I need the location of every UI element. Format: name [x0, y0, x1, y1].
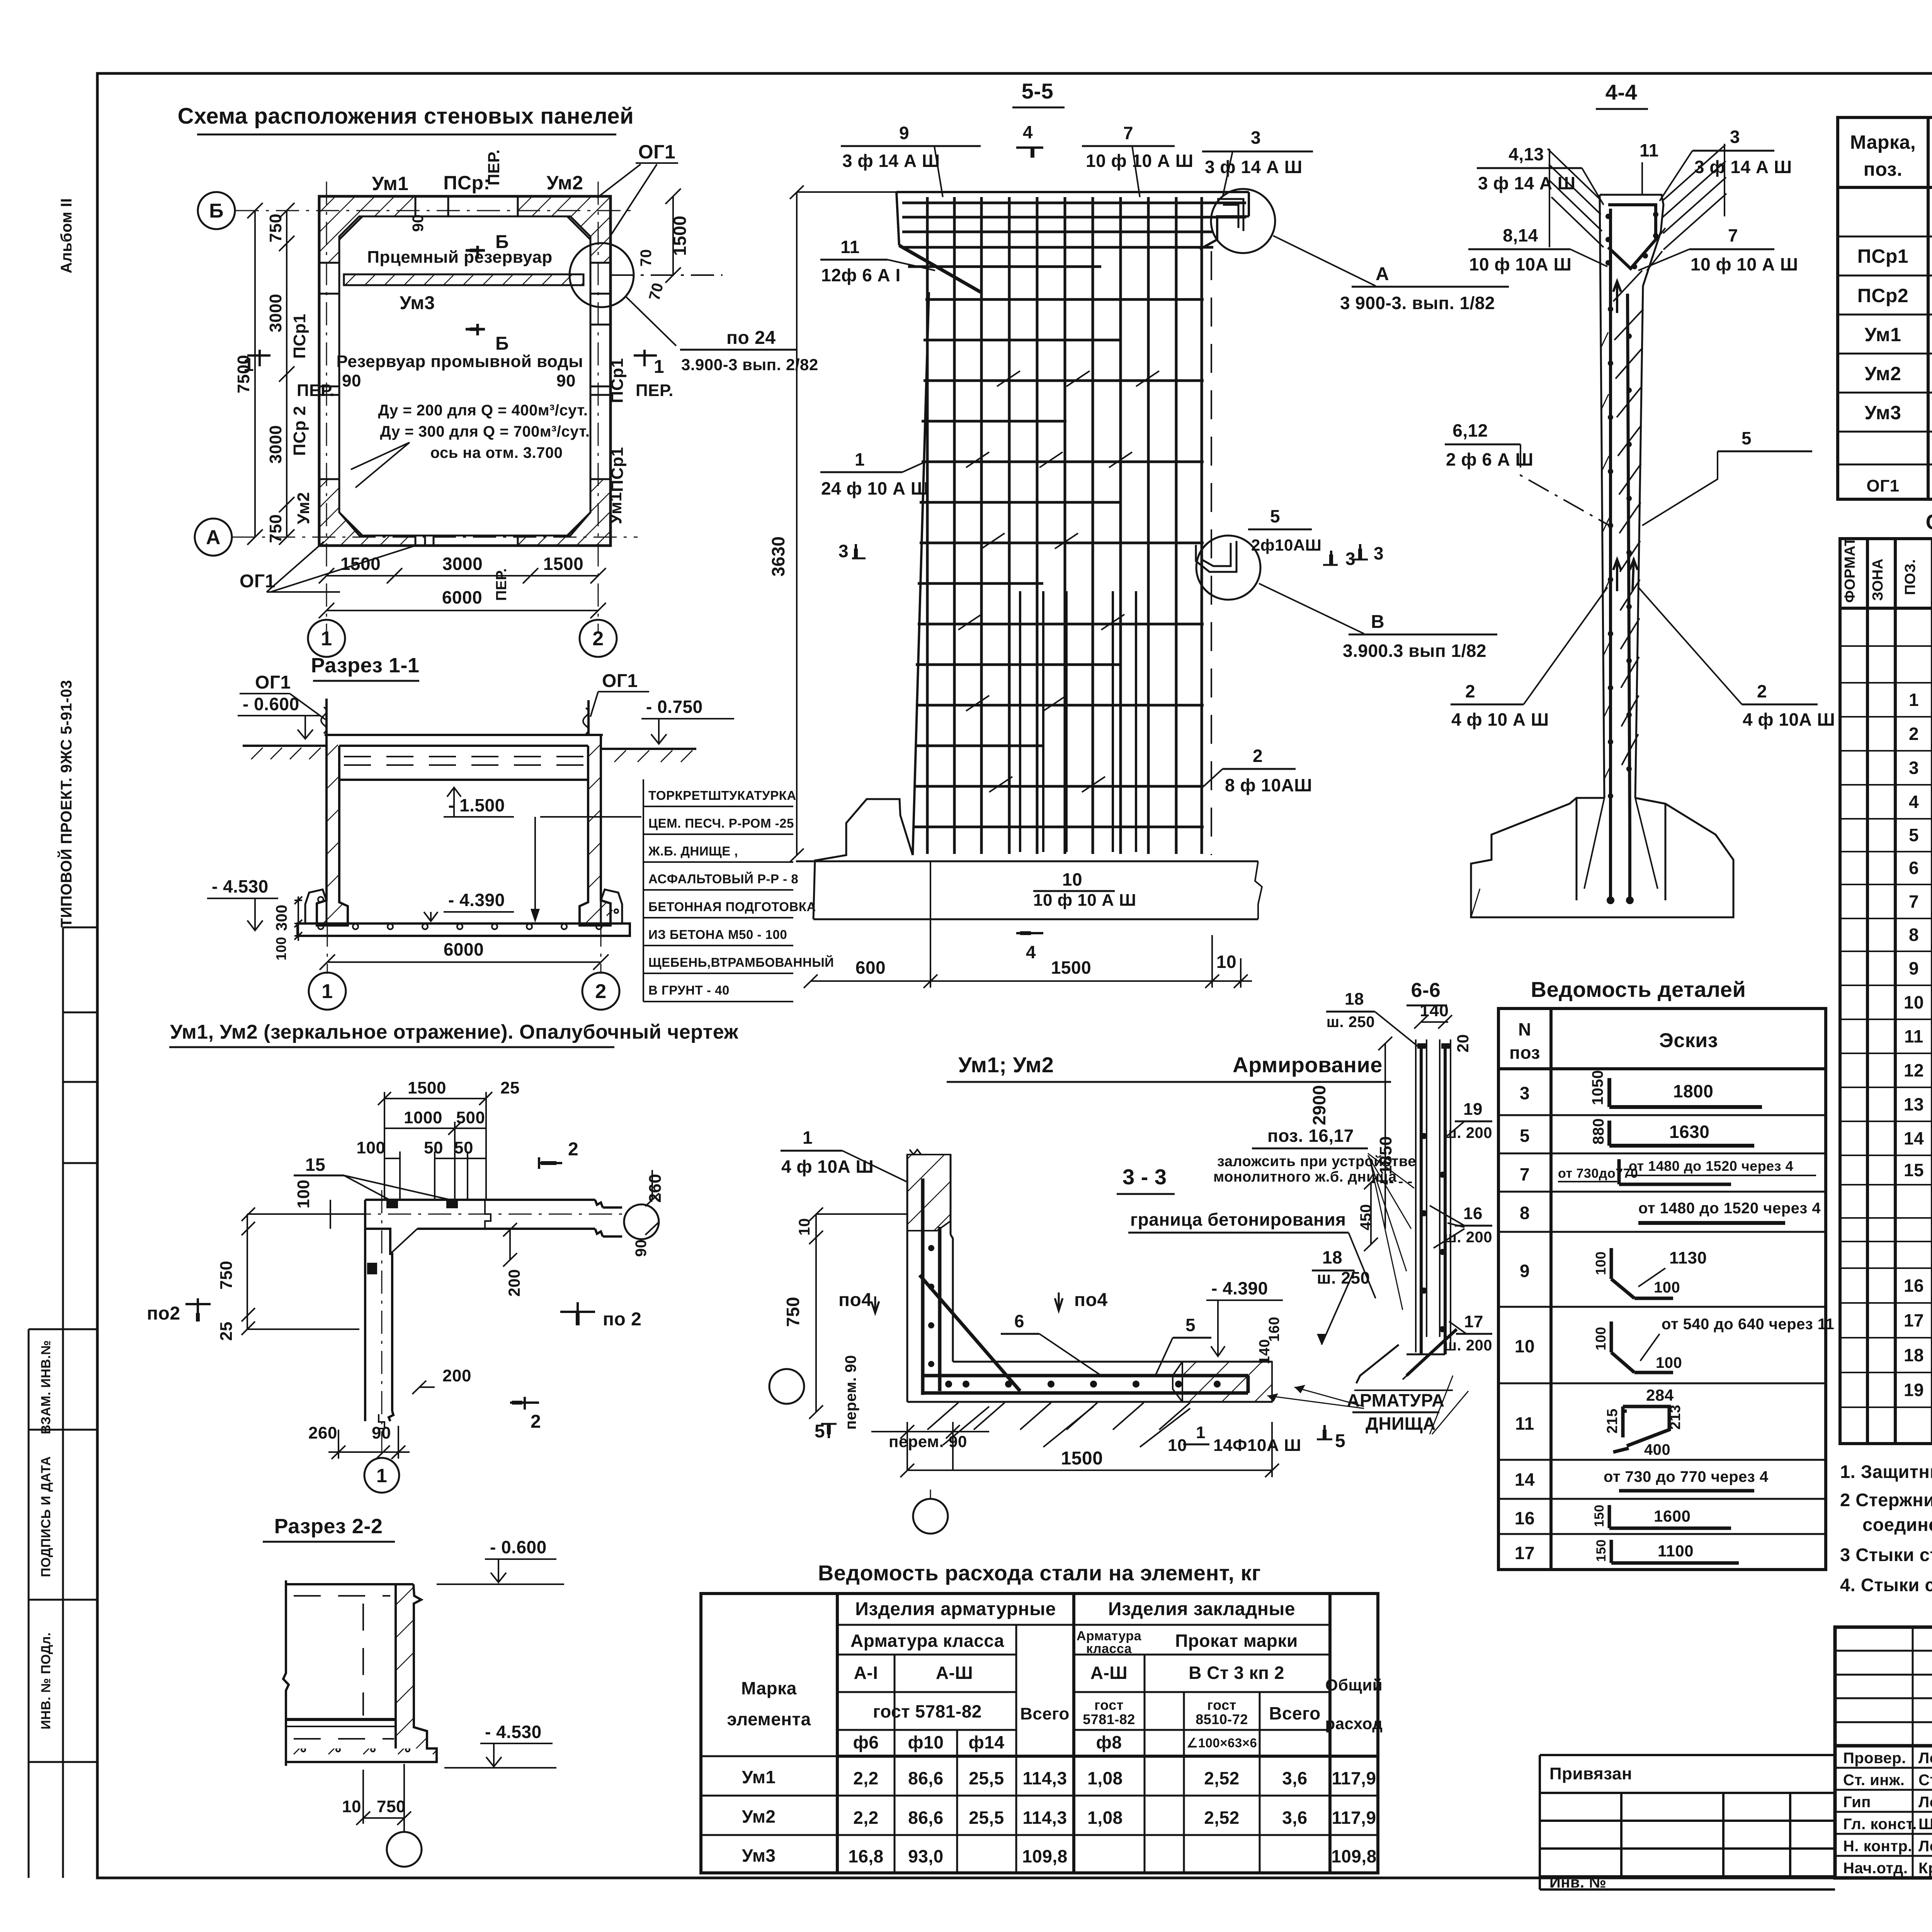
outline: [896, 192, 1249, 855]
svg-text:3000: 3000: [442, 554, 483, 574]
svg-text:1: 1: [654, 357, 664, 377]
svg-text:1: 1: [1909, 690, 1919, 710]
left dims: [241, 1200, 365, 1335]
Ум3 strip: [344, 274, 583, 285]
axis circles: [195, 192, 617, 657]
svg-text:2: 2: [595, 980, 606, 1003]
svg-text:284: 284: [1646, 1386, 1674, 1404]
row 10 sketch: [1611, 1321, 1673, 1372]
foundation left profile: [796, 799, 1262, 919]
svg-text:100: 100: [1654, 1279, 1680, 1296]
svg-text:16: 16: [1904, 1276, 1924, 1296]
svg-text:Разрез 1-1: Разрез 1-1: [311, 654, 420, 677]
svg-text:Ум1: Ум1: [1865, 324, 1901, 345]
svg-text:Б: Б: [495, 333, 509, 354]
svg-text:Красавин: Красавин: [1918, 1860, 1932, 1877]
head rebar detail: [1608, 205, 1656, 835]
svg-text:Ум2: Ум2: [1865, 363, 1901, 384]
svg-text:- 4.530: - 4.530: [485, 1722, 542, 1742]
svg-text:1130: 1130: [1669, 1248, 1707, 1267]
svg-text:24 ф 10 А Ш: 24 ф 10 А Ш: [821, 478, 929, 498]
svg-text:100: 100: [357, 1138, 386, 1157]
rebar horizontals: top dense: [902, 203, 1246, 267]
svg-text:1. Защитный слой бетона - 20: 1. Защитный слой бетона - 20 мм.: [1840, 1461, 1932, 1482]
svg-text:Эскиз: Эскиз: [1659, 1029, 1718, 1052]
svg-text:260: 260: [308, 1423, 337, 1442]
svg-text:Ум1: Ум1: [372, 173, 409, 194]
svg-text:Всего: Всего: [1269, 1703, 1321, 1723]
svg-text:90: 90: [556, 371, 576, 390]
svg-text:3: 3: [1374, 543, 1384, 563]
svg-text:140: 140: [1257, 1339, 1273, 1364]
svg-text:3,6: 3,6: [1282, 1768, 1307, 1788]
svg-text:300: 300: [273, 905, 290, 931]
svg-text:5-5: 5-5: [1022, 79, 1053, 103]
svg-text:17: 17: [1515, 1543, 1535, 1563]
svg-text:- 1.500: - 1.500: [448, 795, 505, 815]
svg-text:1050: 1050: [1589, 1070, 1606, 1105]
bottom dims: [319, 568, 606, 618]
callouts: [820, 122, 1384, 910]
svg-text:16: 16: [1515, 1508, 1535, 1528]
svg-text:- 0.600: - 0.600: [243, 694, 299, 714]
svg-text:19: 19: [1463, 1100, 1483, 1119]
section marks Б: [466, 246, 485, 335]
svg-text:100: 100: [1593, 1327, 1609, 1350]
svg-text:16: 16: [1463, 1204, 1483, 1223]
svg-text:1,08: 1,08: [1087, 1808, 1123, 1828]
svg-text:1500: 1500: [408, 1078, 446, 1097]
svg-text:Шапиро: Шапиро: [1918, 1816, 1932, 1833]
L shape walls: [365, 1200, 622, 1430]
svg-text:93,0: 93,0: [908, 1846, 944, 1866]
svg-text:Ду = 300 для Q = 700м³/сут.: Ду = 300 для Q = 700м³/сут.: [380, 423, 590, 440]
notes box (torkret...): [648, 788, 834, 997]
svg-text:12ф 6 А I: 12ф 6 А I: [821, 265, 901, 285]
6000 dim: [327, 961, 601, 963]
right side marks: [539, 1157, 562, 1169]
svg-text:поз: поз: [1509, 1043, 1540, 1063]
svg-text:160: 160: [1266, 1317, 1282, 1342]
svg-text:перем. 90: перем. 90: [889, 1432, 967, 1451]
svg-text:9: 9: [1520, 1261, 1530, 1281]
svg-text:11: 11: [840, 237, 860, 257]
svg-text:4 ф 10А Ш: 4 ф 10А Ш: [1743, 709, 1835, 730]
svg-text:Ум1, Ум2 (зеркальное отражени: Ум1, Ум2 (зеркальное отражение). Опалубо…: [170, 1021, 738, 1043]
svg-text:ФОРМАТ: ФОРМАТ: [1842, 537, 1858, 603]
svg-text:Разрез 2-2: Разрез 2-2: [274, 1515, 383, 1538]
svg-text:ПСр2: ПСр2: [1857, 285, 1908, 306]
svg-text:гост 5781-82: гост 5781-82: [873, 1701, 982, 1721]
svg-text:ПСр1: ПСр1: [290, 314, 309, 359]
svg-text:Ум1: Ум1: [742, 1767, 776, 1787]
svg-text:4: 4: [1026, 942, 1036, 962]
svg-text:4 ф 10 А Ш: 4 ф 10 А Ш: [1451, 709, 1549, 730]
bottom slab: [298, 923, 630, 936]
svg-text:перем. 90: перем. 90: [842, 1355, 859, 1430]
svg-text:8,14: 8,14: [1503, 225, 1538, 245]
svg-text:109,8: 109,8: [1022, 1846, 1068, 1866]
svg-text:гост: гост: [1207, 1697, 1236, 1713]
svg-text:90: 90: [342, 371, 361, 390]
left overall dim 3630: [790, 185, 896, 862]
svg-text:ш. 250: ш. 250: [1327, 1014, 1375, 1031]
svg-text:100: 100: [273, 937, 289, 961]
svg-text:ПЕР.: ПЕР.: [297, 381, 335, 400]
svg-text:6: 6: [1014, 1311, 1024, 1331]
svg-text:- 4.530: - 4.530: [212, 876, 269, 896]
svg-text:Инв. №: Инв. №: [1549, 1874, 1606, 1891]
svg-text:4,13: 4,13: [1509, 144, 1544, 164]
poz 16,17 leaders from text to bars: [1368, 1153, 1414, 1310]
callouts 4-4: [1323, 127, 1835, 730]
svg-text:Общий: Общий: [1325, 1676, 1383, 1694]
left band hatch ticks: [1601, 332, 1611, 781]
svg-text:ЦЕМ. ПЕСЧ. Р-РОМ -25: ЦЕМ. ПЕСЧ. Р-РОМ -25: [648, 816, 794, 830]
svg-text:8510-72: 8510-72: [1196, 1711, 1248, 1727]
svg-text:109,8: 109,8: [1331, 1846, 1377, 1866]
svg-text:140: 140: [1420, 1001, 1449, 1020]
svg-text:150: 150: [1594, 1539, 1609, 1562]
svg-text:880: 880: [1590, 1118, 1607, 1145]
svg-text:N: N: [1518, 1019, 1531, 1039]
svg-text:Н. контр.: Н. контр.: [1843, 1838, 1912, 1855]
hatch on column right band: [1613, 228, 1665, 765]
svg-text:2: 2: [1909, 724, 1919, 744]
svg-text:117,9: 117,9: [1332, 1808, 1376, 1828]
black embed squares: [367, 1200, 458, 1274]
horizontals body: full and short alternating: [914, 299, 1204, 827]
svg-text:Марка: Марка: [741, 1678, 797, 1698]
1500 / 10 dims bottom: [900, 1422, 1279, 1477]
svg-text:ЗОНА: ЗОНА: [1870, 558, 1886, 601]
svg-text:В Ст 3 кп 2: В Ст 3 кп 2: [1189, 1663, 1284, 1683]
svg-text:по 2: по 2: [603, 1309, 641, 1330]
svg-text:10: 10: [1062, 869, 1082, 889]
svg-text:14: 14: [1904, 1128, 1924, 1148]
svg-text:ПСр1: ПСр1: [608, 447, 627, 492]
svg-text:Ум3: Ум3: [1865, 402, 1901, 423]
svg-text:18: 18: [1322, 1247, 1342, 1267]
ПРИВЯЗАН box: [1540, 1755, 1835, 1889]
svg-text:90: 90: [410, 214, 427, 232]
svg-text:Привязан: Привязан: [1549, 1764, 1632, 1783]
svg-text:ПОДПИСЬ И ДАТА: ПОДПИСЬ И ДАТА: [39, 1456, 53, 1577]
svg-text:ПСр1: ПСр1: [608, 358, 627, 403]
svg-text:2: 2: [1253, 746, 1263, 766]
svg-text:Лоуцкер: Лоуцкер: [1918, 1838, 1932, 1855]
svg-text:ОГ1: ОГ1: [1866, 476, 1899, 495]
row 7 sketch: [1619, 1159, 1731, 1184]
svg-text:8 ф 10АШ: 8 ф 10АШ: [1225, 775, 1312, 795]
svg-text:поз.: поз.: [1864, 158, 1903, 180]
svg-text:3 - 3: 3 - 3: [1122, 1165, 1167, 1189]
svg-text:по4: по4: [1074, 1290, 1108, 1310]
svg-text:3 900-3. вып. 1/82: 3 900-3. вып. 1/82: [1340, 293, 1495, 313]
svg-text:А-I: А-I: [854, 1663, 878, 1683]
svg-text:А-Ш: А-Ш: [936, 1663, 973, 1683]
row 11 sketch: [1613, 1406, 1669, 1452]
svg-text:- 4.390: - 4.390: [1211, 1278, 1268, 1298]
svg-text:В: В: [1371, 612, 1384, 632]
svg-text:Марка,: Марка,: [1850, 131, 1916, 153]
svg-text:213: 213: [1667, 1405, 1684, 1430]
svg-text:10 ф 10А Ш: 10 ф 10А Ш: [1469, 254, 1571, 274]
svg-text:5: 5: [1270, 506, 1280, 526]
svg-text:ф14: ф14: [969, 1732, 1005, 1752]
svg-text:гост: гост: [1094, 1697, 1124, 1713]
svg-text:- 4.390: - 4.390: [448, 890, 505, 910]
svg-text:7: 7: [1909, 891, 1919, 912]
svg-text:16,8: 16,8: [848, 1846, 884, 1866]
svg-text:ПСр1: ПСр1: [1857, 245, 1908, 267]
svg-text:ф10: ф10: [908, 1732, 944, 1752]
svg-text:Спецификация к схемам ра: Спецификация к схемам расположения армат…: [1925, 510, 1932, 534]
svg-text:от 1480 до 1520 через 4: от 1480 до 1520 через 4: [1629, 1158, 1793, 1174]
svg-text:Провер.: Провер.: [1843, 1750, 1906, 1767]
svg-text:Изделия арматурные: Изделия арматурные: [855, 1599, 1056, 1619]
svg-text:- 0.600: - 0.600: [490, 1537, 547, 1557]
column outline: [1600, 195, 1663, 798]
svg-text:А: А: [1376, 264, 1389, 284]
svg-text:10: 10: [1904, 992, 1924, 1012]
railing posts: [321, 699, 588, 736]
svg-text:ПЕР.: ПЕР.: [493, 568, 510, 601]
row 16 sketch: [1609, 1505, 1731, 1528]
svg-text:750: 750: [266, 514, 285, 543]
svg-text:3: 3: [1730, 127, 1740, 147]
svg-text:3630: 3630: [768, 536, 788, 577]
svg-text:12: 12: [1904, 1060, 1924, 1080]
svg-text:3000: 3000: [266, 425, 285, 464]
svg-text:Ст. инж.: Ст. инж.: [1843, 1772, 1905, 1789]
svg-text:5: 5: [1742, 428, 1752, 448]
leaders from detail circles to A / B labels: [1273, 236, 1376, 286]
svg-text:3: 3: [1345, 549, 1355, 569]
svg-text:2,2: 2,2: [853, 1768, 878, 1788]
svg-text:3: 3: [838, 541, 849, 561]
svg-text:1600: 1600: [1654, 1507, 1690, 1525]
svg-text:1500: 1500: [1061, 1448, 1103, 1469]
svg-text:монолитного ж.б. днища: монолитного ж.б. днища: [1213, 1169, 1397, 1185]
svg-text:от 540 до 640 через 11: от 540 до 640 через 11: [1662, 1316, 1834, 1333]
svg-text:по4: по4: [838, 1290, 872, 1310]
axis dash-dot lines: [232, 182, 638, 634]
wall vertical with hatch (top of L): [907, 1150, 1272, 1402]
closed circles (axis): [624, 1204, 659, 1239]
svg-text:∠100×63×6: ∠100×63×6: [1187, 1736, 1257, 1750]
svg-text:1: 1: [321, 980, 333, 1003]
svg-text:215: 215: [1604, 1408, 1621, 1434]
svg-text:750: 750: [217, 1261, 236, 1290]
svg-text:14Ф10А Ш: 14Ф10А Ш: [1213, 1436, 1301, 1455]
svg-text:ПЕР.: ПЕР.: [636, 381, 673, 400]
svg-text:750: 750: [266, 214, 285, 243]
svg-text:Ду = 200 для Q = 400м³/сут.: Ду = 200 для Q = 400м³/сут.: [378, 402, 588, 419]
svg-text:3.900.3 вып 1/82: 3.900.3 вып 1/82: [1343, 641, 1486, 661]
lower-right extra verticals (pos 10): [1020, 591, 1136, 852]
svg-text:50: 50: [424, 1138, 443, 1157]
svg-text:6-6: 6-6: [1411, 979, 1441, 1002]
svg-text:2,52: 2,52: [1204, 1808, 1240, 1828]
svg-text:1: 1: [855, 449, 865, 469]
svg-text:3 Стыки стеновых панелей: 3 Стыки стеновых панелей выполнять по уз…: [1840, 1544, 1932, 1565]
svg-text:ПОЗ.: ПОЗ.: [1902, 559, 1918, 595]
svg-text:соединения вязаные.: соединения вязаные.: [1862, 1514, 1932, 1535]
right 1500 dim + detail circle: [611, 189, 723, 283]
svg-text:ДНИЩА: ДНИЩА: [1366, 1413, 1436, 1434]
svg-text:3: 3: [1251, 128, 1261, 148]
svg-text:Прцемный резервуар: Прцемный резервуар: [367, 248, 553, 267]
svg-text:ось на отм. 3.700: ось на отм. 3.700: [430, 444, 563, 461]
svg-text:1,08: 1,08: [1087, 1768, 1123, 1788]
joints on walls: [319, 196, 611, 546]
tick crosses: [958, 371, 1159, 792]
top dims: [378, 1092, 492, 1200]
svg-text:3 ф 14 А Ш: 3 ф 14 А Ш: [1205, 157, 1303, 177]
svg-text:1500: 1500: [670, 216, 690, 256]
svg-text:400: 400: [1644, 1441, 1670, 1458]
svg-text:2: 2: [531, 1412, 541, 1432]
svg-text:200: 200: [442, 1366, 471, 1385]
svg-text:Схема расположения стеновых: Схема расположения стеновых панелей: [178, 104, 634, 129]
svg-text:Ум1; Ум2: Ум1; Ум2: [958, 1053, 1054, 1077]
svg-text:Всего: Всего: [1020, 1704, 1070, 1723]
svg-text:7: 7: [1520, 1164, 1530, 1184]
svg-text:ИНВ. № ПОДл.: ИНВ. № ПОДл.: [39, 1632, 53, 1730]
svg-text:Ведомость расхода стали на: Ведомость расхода стали на элемент, кг: [818, 1561, 1261, 1585]
svg-text:А-Ш: А-Ш: [1090, 1663, 1128, 1683]
svg-text:2,52: 2,52: [1204, 1768, 1240, 1788]
svg-text:от 730до770: от 730до770: [1558, 1166, 1638, 1181]
section mark 1 left/right: [243, 350, 664, 377]
svg-text:ТИПОВОЙ ПРОЕКТ. 9ЖС 5-91-0: ТИПОВОЙ ПРОЕКТ. 9ЖС 5-91-03: [57, 680, 75, 928]
svg-text:90: 90: [633, 1239, 650, 1257]
ground lines with hatch: [243, 746, 696, 749]
svg-text:по2: по2: [147, 1303, 180, 1324]
svg-text:11: 11: [1639, 140, 1659, 160]
svg-text:10 ф 10 А Ш: 10 ф 10 А Ш: [1690, 254, 1798, 274]
svg-text:3: 3: [1909, 758, 1919, 778]
svg-text:Ж.Б. ДНИЩЕ ,: Ж.Б. ДНИЩЕ ,: [648, 844, 738, 858]
svg-text:расход: расход: [1325, 1714, 1383, 1733]
svg-text:9: 9: [1909, 958, 1919, 978]
svg-text:1: 1: [243, 355, 254, 375]
svg-text:450: 450: [1357, 1204, 1374, 1230]
svg-text:4: 4: [1023, 122, 1033, 142]
svg-text:поз. 16,17: поз. 16,17: [1267, 1126, 1354, 1146]
svg-text:ОГ1: ОГ1: [602, 671, 638, 691]
svg-text:3 ф 14 А Ш: 3 ф 14 А Ш: [1694, 157, 1792, 177]
svg-text:3,6: 3,6: [1282, 1808, 1307, 1828]
svg-text:от 1480 до 1520 через 4: от 1480 до 1520 через 4: [1638, 1200, 1821, 1217]
svg-text:2 Стержни поз. 10 приварить: 2 Стержни поз. 10 приварить к стержням п…: [1840, 1490, 1932, 1510]
svg-text:ОГ1: ОГ1: [638, 141, 676, 163]
svg-text:6,12: 6,12: [1452, 420, 1488, 440]
svg-text:25: 25: [217, 1321, 236, 1341]
svg-text:4-4: 4-4: [1605, 80, 1637, 104]
svg-text:Ум2: Ум2: [294, 492, 313, 524]
svg-text:11: 11: [1515, 1413, 1534, 1434]
svg-text:ф8: ф8: [1096, 1732, 1122, 1752]
svg-text:750: 750: [783, 1297, 803, 1327]
svg-text:86,6: 86,6: [908, 1768, 944, 1788]
svg-text:4. Стыки стеновых панелей: 4. Стыки стеновых панелей с днищем выпол…: [1840, 1575, 1932, 1595]
svg-text:5: 5: [1335, 1431, 1345, 1451]
svg-text:18: 18: [1345, 990, 1364, 1009]
svg-text:1000: 1000: [404, 1108, 442, 1127]
svg-text:25: 25: [500, 1078, 520, 1097]
foundation: [1471, 798, 1733, 917]
svg-text:ПЕР.: ПЕР.: [485, 149, 503, 185]
svg-text:ВЗАМ. ИНВ.№: ВЗАМ. ИНВ.№: [39, 1340, 53, 1434]
svg-text:1: 1: [321, 628, 332, 650]
svg-text:4: 4: [1909, 792, 1919, 812]
svg-text:1500: 1500: [1051, 957, 1091, 978]
svg-text:Прокат марки: Прокат марки: [1175, 1631, 1298, 1651]
svg-text:2,2: 2,2: [853, 1808, 878, 1828]
svg-text:10 ф 10 А Ш: 10 ф 10 А Ш: [1033, 891, 1136, 910]
svg-text:3 ф 14 А Ш: 3 ф 14 А Ш: [1478, 173, 1576, 193]
svg-text:АСФАЛЬТОВЫЙ Р-Р - 8: АСФАЛЬТОВЫЙ Р-Р - 8: [648, 871, 798, 886]
svg-text:Ум3: Ум3: [400, 293, 435, 313]
svg-text:Гл. конст.: Гл. конст.: [1843, 1816, 1917, 1833]
svg-text:117,9: 117,9: [1332, 1768, 1376, 1788]
svg-text:6000: 6000: [442, 587, 482, 607]
svg-text:114,3: 114,3: [1022, 1768, 1067, 1788]
svg-text:2: 2: [1757, 681, 1767, 701]
svg-text:3 ф 14 А Ш: 3 ф 14 А Ш: [842, 151, 940, 171]
row 3 sketch: [1609, 1078, 1762, 1107]
svg-text:500: 500: [456, 1108, 485, 1127]
svg-text:25,5: 25,5: [969, 1808, 1004, 1828]
svg-text:5: 5: [1520, 1126, 1530, 1146]
svg-text:25,5: 25,5: [969, 1768, 1004, 1788]
svg-text:10: 10: [1216, 952, 1236, 972]
svg-text:8: 8: [1520, 1203, 1530, 1223]
svg-text:17: 17: [1904, 1310, 1924, 1330]
svg-text:86,6: 86,6: [908, 1808, 944, 1828]
svg-text:7: 7: [1728, 225, 1738, 245]
svg-text:Ум2: Ум2: [742, 1806, 776, 1827]
labels above plan: [372, 141, 676, 194]
svg-text:граница бетонирования: граница бетонирования: [1130, 1209, 1346, 1230]
hatched corner panels: [319, 196, 611, 546]
svg-text:8: 8: [1909, 925, 1919, 945]
svg-text:ИЗ БЕТОНА М50 - 100: ИЗ БЕТОНА М50 - 100: [648, 927, 787, 942]
left margin stamp strip: [29, 927, 97, 1878]
svg-text:19: 19: [1904, 1380, 1924, 1400]
svg-text:3.900-3 вып. 2/82: 3.900-3 вып. 2/82: [681, 355, 818, 374]
svg-text:200: 200: [505, 1269, 523, 1297]
row 5 sketch: [1609, 1121, 1754, 1146]
svg-text:18: 18: [1904, 1345, 1924, 1365]
bottom dims of 5-5: [804, 861, 1252, 988]
svg-text:3: 3: [1520, 1083, 1530, 1103]
svg-text:2: 2: [592, 628, 604, 650]
svg-text:5781-82: 5781-82: [1083, 1711, 1135, 1727]
svg-text:1: 1: [1196, 1423, 1206, 1442]
svg-text:13: 13: [1904, 1094, 1924, 1114]
svg-text:2ф10АШ: 2ф10АШ: [1251, 536, 1321, 554]
svg-text:Лоуцкер: Лоуцкер: [1918, 1794, 1932, 1811]
bold rebar in 3-3: [920, 1179, 1248, 1395]
svg-text:6: 6: [1909, 858, 1919, 878]
svg-text:1800: 1800: [1673, 1081, 1713, 1101]
mid-right joint detail (pos 5): [1196, 541, 1236, 572]
svg-text:20: 20: [1454, 1034, 1472, 1053]
svg-text:2900: 2900: [1309, 1085, 1329, 1125]
